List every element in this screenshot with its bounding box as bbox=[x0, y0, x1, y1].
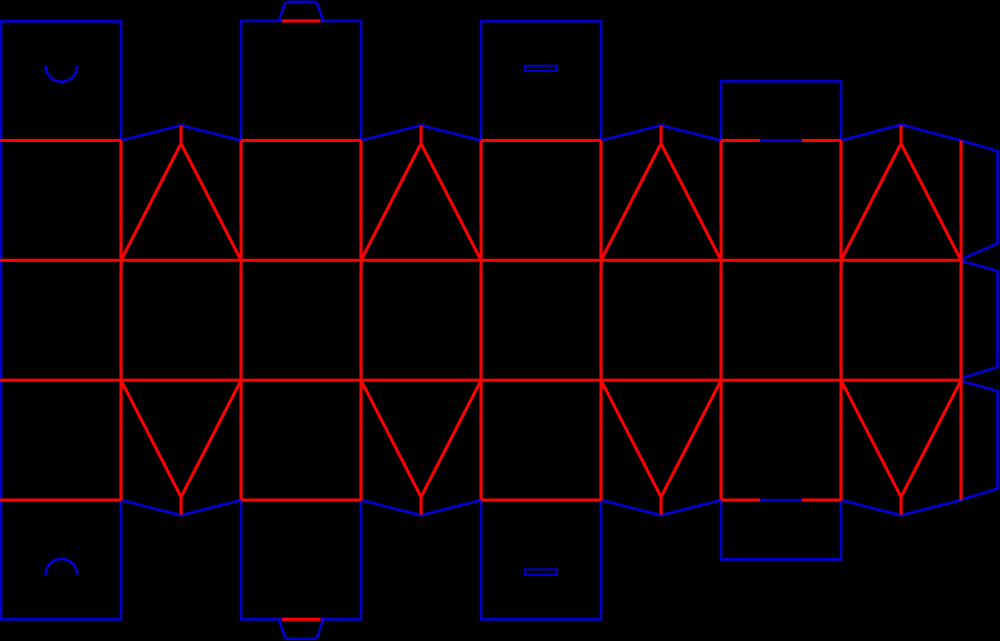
vertical fold x481 bbox=[479, 140, 482, 500]
vertical fold x361 bbox=[359, 140, 362, 500]
gable triangle bottom col8 bbox=[841, 380, 961, 497]
fold bottom panel5 bbox=[481, 499, 601, 502]
tuck tab bottom bbox=[279, 619, 323, 639]
waist fold upper bbox=[0, 259, 961, 262]
fold top panel3 bbox=[241, 139, 361, 142]
vertical fold x721 bbox=[719, 140, 722, 500]
top flap panel5 outline bbox=[481, 21, 601, 140]
handle cut top panel7 bbox=[760, 139, 802, 142]
gable apex stub top col2 bbox=[179, 126, 182, 144]
tuck tab top bbox=[279, 2, 323, 21]
bottom gable cut col6 bbox=[601, 500, 721, 515]
top flap panel7 outline bbox=[721, 81, 841, 140]
hand slot top flap bbox=[525, 66, 557, 71]
top gable cut col2 bbox=[121, 125, 241, 140]
gable apex stub bottom col4 bbox=[419, 497, 422, 515]
left edge cut bbox=[0, 21, 2, 619]
tuck tab fold bottom bbox=[282, 618, 321, 621]
gable apex stub bottom col2 bbox=[179, 497, 182, 515]
fold top panel7 left bbox=[721, 139, 760, 142]
fold top panel5 bbox=[481, 139, 601, 142]
gable apex stub bottom col8 bbox=[899, 497, 902, 515]
gable triangle top col8 bbox=[841, 144, 961, 261]
thumb notch bottom flap bbox=[46, 559, 78, 575]
top gable cut col6 bbox=[601, 125, 721, 140]
vertical fold x121 bbox=[119, 140, 122, 500]
gable apex stub top col4 bbox=[419, 126, 422, 144]
glue tab right top bbox=[961, 140, 998, 259]
bottom flap panel1 outline bbox=[0, 500, 121, 619]
fold top panel1 bbox=[0, 139, 121, 142]
thumb notch top flap bbox=[46, 66, 78, 82]
handle cut bottom panel7 bbox=[760, 499, 802, 502]
hand slot bottom flap bbox=[525, 569, 557, 574]
bottom gable cut col4 bbox=[361, 500, 481, 515]
bottom gable cut col2 bbox=[121, 500, 241, 515]
bottom flap panel5 outline bbox=[481, 500, 601, 619]
gable triangle top col4 bbox=[361, 144, 481, 261]
fold top panel7 right bbox=[802, 139, 841, 142]
fold bottom panel1 bbox=[0, 499, 121, 502]
tuck tab fold top bbox=[282, 19, 321, 22]
vertical fold x241 bbox=[239, 140, 242, 500]
top flap panel3 outline bbox=[241, 21, 361, 140]
top gable cut col8 bbox=[841, 125, 961, 141]
glue tab right bottom bbox=[961, 381, 998, 500]
bottom flap panel3 outline bbox=[241, 500, 361, 619]
gable triangle top col6 bbox=[601, 144, 721, 261]
gable triangle bottom col2 bbox=[121, 380, 241, 497]
gable apex stub top col8 bbox=[899, 126, 902, 144]
bottom flap panel7 outline bbox=[721, 500, 841, 559]
gable triangle bottom col4 bbox=[361, 380, 481, 497]
gable triangle bottom col6 bbox=[601, 380, 721, 497]
gable triangle top col2 bbox=[121, 144, 241, 261]
gable apex stub bottom col6 bbox=[659, 497, 662, 515]
vertical fold x841 bbox=[839, 140, 842, 500]
vertical fold x601 bbox=[599, 140, 602, 500]
top flap panel1 outline bbox=[0, 21, 121, 140]
fold bottom panel7 left bbox=[721, 499, 760, 502]
gable apex stub top col6 bbox=[659, 126, 662, 144]
waist fold lower bbox=[0, 379, 961, 382]
bottom gable cut col8 bbox=[841, 500, 961, 515]
glue tab right middle bbox=[961, 261, 998, 378]
fold bottom panel3 bbox=[241, 499, 361, 502]
vertical fold x961 bbox=[959, 140, 962, 500]
fold bottom panel7 right bbox=[802, 499, 841, 502]
top gable cut col4 bbox=[361, 125, 481, 140]
